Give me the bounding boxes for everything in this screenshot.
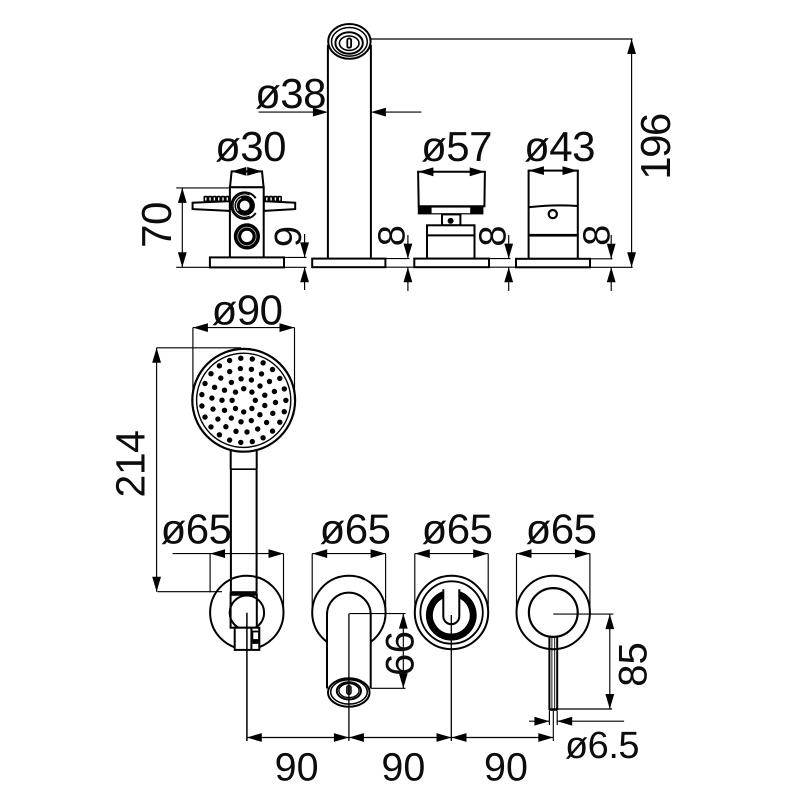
svg-text:ø65: ø65: [320, 506, 391, 553]
shower face nozzle dots: [199, 356, 288, 446]
dimension 196: [371, 39, 636, 267]
plate3 centerline: [450, 615, 452, 741]
dimension ø65 plate1: [173, 549, 284, 612]
plate2 centerline: [348, 614, 350, 741]
handle H2 base cylinder: [427, 225, 475, 258]
dimension 9: [284, 234, 309, 290]
handle H1 knurl teeth left: [204, 197, 229, 202]
spout aerator ellipse: [335, 32, 362, 53]
shower head rim: [192, 349, 295, 452]
wall plate 3: [415, 576, 488, 649]
svg-text:ø6.5: ø6.5: [565, 725, 639, 767]
svg-text:ø65: ø65: [526, 506, 597, 553]
dimension 85: [553, 614, 614, 709]
plate3 notch: [443, 589, 459, 624]
dimension ø38: [259, 108, 422, 117]
svg-text:ø57: ø57: [421, 123, 492, 170]
handle H3 band: [529, 234, 578, 237]
dimension 90 chain: [247, 733, 554, 742]
svg-text:ø38: ø38: [255, 70, 326, 117]
handle H3 shoulder: [529, 205, 578, 207]
dimension ø90: [193, 323, 295, 400]
handle H2 black band: [418, 206, 484, 214]
plate3 inner ring: [420, 581, 482, 643]
handle H1 right wing: [264, 201, 296, 211]
svg-text:8: 8: [577, 225, 619, 246]
svg-text:8: 8: [473, 225, 515, 246]
handle H3 base plate: [516, 259, 590, 268]
shower holder clip: [252, 632, 259, 641]
wall plate 2: [312, 576, 385, 649]
wall spout aerator ellipses: [328, 678, 370, 706]
spout column: [328, 45, 371, 259]
dimension 8 H2: [489, 235, 522, 291]
spout top ellipse outer: [328, 24, 370, 59]
plate4 lever: [549, 636, 557, 711]
shower holder back: [231, 595, 257, 628]
svg-text:ø90: ø90: [212, 287, 283, 334]
handle H2 base plate: [414, 259, 489, 268]
handle H3 body: [529, 171, 578, 259]
svg-text:ø30: ø30: [215, 123, 286, 170]
dimension ø57 arrows: [418, 167, 484, 176]
svg-text:ø65: ø65: [161, 506, 232, 553]
shower handle upper: [231, 450, 257, 470]
shower handle lower: [231, 469, 257, 591]
handle H1 upper hub outer arc: [231, 192, 255, 219]
plate4 lever cap: [549, 708, 557, 711]
handle H2 knob: [418, 172, 485, 207]
handle H1 upper hub inner arc: [233, 194, 250, 217]
shower holder knob: [230, 596, 264, 630]
dimension ø6.5: [529, 711, 624, 726]
handle H1 upper hub highlight: [236, 198, 241, 211]
plate3 horseshoe: [429, 595, 473, 637]
spout base plate: [312, 259, 385, 268]
svg-text:ø65: ø65: [422, 506, 493, 553]
dimension ø65 plate3: [415, 549, 488, 612]
svg-text:214: 214: [107, 431, 153, 498]
dimension ø30 arrows: [231, 167, 262, 176]
wall spout tube: [327, 593, 371, 689]
handle H2 base cylinder line: [427, 234, 475, 236]
handle H3 dot: [549, 210, 557, 218]
svg-text:9: 9: [268, 226, 310, 247]
shower holder bracket: [235, 628, 260, 650]
spout aerator inner ellipse: [339, 36, 359, 50]
handle H1 lower hub ring: [238, 227, 257, 246]
wall plate 4: [517, 576, 590, 649]
svg-text:90: 90: [275, 746, 319, 790]
dimension 8 H3: [590, 235, 633, 291]
svg-text:90: 90: [484, 746, 528, 790]
handle H1 upper hub ring: [237, 198, 252, 213]
handle H1 left wing: [193, 201, 230, 211]
handle H2 stem dot: [448, 218, 454, 224]
dimension 70 bottom extension: [176, 266, 306, 268]
spout top ellipse rim: [332, 28, 368, 57]
dimension ø65 plate4: [517, 549, 590, 612]
dimension 70: [176, 188, 229, 267]
svg-text:90: 90: [381, 746, 425, 790]
handle H1 top knob: [230, 171, 264, 187]
plate4 inner ring: [529, 588, 578, 637]
dimension 8 spout: [385, 235, 421, 291]
svg-text:66: 66: [379, 631, 423, 677]
shower handle end cap: [230, 591, 258, 595]
svg-text:70: 70: [133, 202, 180, 248]
svg-text:ø43: ø43: [524, 123, 595, 170]
wall spout slot: [347, 686, 352, 695]
wall plate 1: [210, 576, 283, 649]
dimension 214: [152, 348, 241, 592]
svg-text:196: 196: [632, 114, 679, 180]
dimension ø43 arrows: [529, 166, 578, 175]
hose: [246, 613, 248, 741]
svg-text:8: 8: [372, 225, 414, 246]
dimension ø65 plate2: [312, 549, 385, 612]
handle H1 lower hub highlight: [238, 227, 256, 245]
handle H2 band window: [432, 208, 471, 214]
spout slot: [347, 39, 351, 48]
handle H1 knurl teeth right: [265, 197, 281, 202]
handle H1 base plate: [210, 257, 284, 267]
dimension 66: [349, 614, 407, 689]
handle H1 body: [230, 187, 264, 257]
plate4 centerline: [552, 711, 554, 741]
handle H2 stem: [442, 214, 460, 225]
svg-text:85: 85: [612, 642, 656, 687]
